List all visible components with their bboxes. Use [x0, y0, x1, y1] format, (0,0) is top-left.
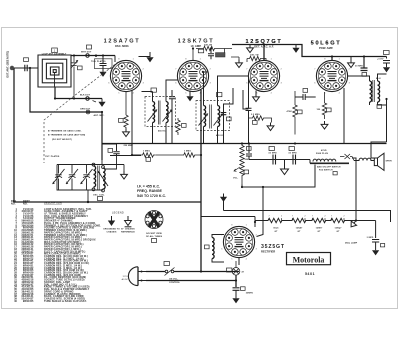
filament string bus	[255, 158, 376, 238]
svg-text:8: 8	[185, 59, 186, 61]
svg-text:500K PLUS: 500K PLUS	[316, 153, 329, 155]
svg-text:8: 8	[256, 59, 257, 61]
svg-text:I.F. = 455 K.C.: I.F. = 455 K.C.	[137, 185, 160, 189]
svg-text:7: 7	[108, 69, 109, 71]
svg-text:EXT. ANT. (SEE NOTE): EXT. ANT. (SEE NOTE)	[7, 51, 10, 78]
B- arrow at line cap	[372, 247, 379, 255]
svg-text:2: 2	[344, 216, 345, 218]
svg-text:BLK DOT: BLK DOT	[80, 95, 91, 97]
chassis ground under 20K	[123, 129, 130, 137]
svg-text:ANT. SEC.: ANT. SEC.	[94, 114, 105, 117]
bottom chassis bus	[14, 68, 201, 202]
svg-text:4: 4	[246, 259, 247, 261]
IF T3 part-number box	[217, 93, 222, 97]
svg-text:.01 MFD: .01 MFD	[268, 153, 277, 155]
chassis arrow right of gang	[123, 165, 125, 172]
long B- vertical to power line	[200, 90, 202, 272]
speaker	[374, 158, 377, 166]
IF T2 part-number box	[151, 88, 156, 92]
svg-text:6: 6	[221, 249, 222, 251]
svg-text:GROUNDED TO: GROUNDED TO	[103, 228, 120, 230]
svg-text:455 KC: 455 KC	[216, 134, 224, 137]
svg-text:OSC. COIL: OSC. COIL	[93, 194, 105, 196]
svg-text:SPKR: SPKR	[386, 161, 393, 163]
svg-text:50L6GT: 50L6GT	[311, 41, 342, 47]
svg-text:✱ TRIMMERS ON GANG COND.: ✱ TRIMMERS ON GANG COND.	[48, 130, 82, 133]
svg-text:1: 1	[339, 59, 340, 61]
svg-text:CUT. PLATES: CUT. PLATES	[45, 155, 60, 158]
B+ filter capacitor 30MFD	[361, 57, 368, 71]
svg-text:30MFD: 30MFD	[246, 293, 254, 295]
B- arrow at top bus	[292, 45, 299, 53]
B- arrow under V2	[189, 91, 191, 94]
svg-text:8: 8	[231, 225, 232, 227]
svg-text:AND ON-OFF SWITCH: AND ON-OFF SWITCH	[317, 165, 341, 168]
svg-text:12SA7: 12SA7	[296, 227, 304, 230]
oscillator grid resistor 20K	[124, 92, 128, 130]
svg-text:DIAL LAMP: DIAL LAMP	[345, 242, 358, 245]
svg-text:2: 2	[256, 235, 257, 237]
AVC resistor 2	[155, 153, 201, 157]
wire antenna to loop	[14, 67, 38, 69]
loop bottom wire	[55, 87, 102, 99]
ground between audio caps	[284, 160, 286, 170]
IF transformer T3 (2nd IF) can	[196, 95, 230, 144]
loop antenna L1 spiral	[38, 55, 71, 87]
twisted pair crossing	[340, 154, 354, 161]
legend chassis arrow	[127, 216, 129, 221]
svg-text:7: 7	[292, 216, 293, 218]
speaker voice coil wiring	[371, 142, 387, 158]
svg-text:2: 2	[143, 69, 144, 71]
svg-text:1: 1	[246, 225, 247, 227]
tube pin numbers	[108, 59, 349, 261]
wire into V1 grid	[114, 56, 116, 63]
grid resistor 470K vertical	[293, 91, 297, 135]
AVC resistor 1 MEG	[141, 153, 155, 157]
svg-text:RECTIFIER: RECTIFIER	[261, 250, 275, 254]
V3 cathode ground	[255, 91, 257, 94]
svg-text:✱ TRIMMERS ON CANS (BOTTOM): ✱ TRIMMERS ON CANS (BOTTOM)	[48, 134, 85, 137]
svg-text:3: 3	[349, 83, 350, 85]
svg-text:B− CHASSIS: B− CHASSIS	[121, 227, 135, 230]
oscillator coil L2	[92, 163, 108, 192]
svg-text:CHASSIS: CHASSIS	[107, 230, 117, 233]
svg-text:AC-DC: AC-DC	[122, 278, 129, 281]
AVC capacitor 250MMF	[102, 144, 141, 156]
svg-text:250 MMF: 250 MMF	[124, 145, 134, 147]
svg-text:455 KC: 455 KC	[158, 130, 166, 133]
svg-text:7: 7	[312, 216, 313, 218]
svg-text:5: 5	[256, 93, 257, 95]
svg-text:5: 5	[118, 93, 119, 95]
cathode resistor 150 vertical with ground	[322, 92, 326, 119]
svg-text:NO.: NO.	[11, 202, 16, 205]
wire GRN DOT line	[30, 68, 102, 160]
svg-text:10K ¾W: 10K ¾W	[250, 54, 259, 57]
socket view symbol	[145, 211, 163, 229]
svg-text:6: 6	[175, 83, 176, 85]
loop assembly box label 1	[52, 48, 58, 53]
svg-text:50L6: 50L6	[273, 228, 279, 230]
ground B- at grid cap	[99, 69, 106, 77]
svg-text:470K: 470K	[287, 110, 293, 113]
resistor between IF cans	[176, 118, 180, 135]
lower line cord wire	[146, 275, 236, 287]
tube V5 35Z5GT rectifier socket	[223, 226, 254, 257]
svg-text:1 MEG: 1 MEG	[143, 151, 150, 153]
electrolytic cap under line	[233, 288, 240, 291]
svg-text:12SQ7: 12SQ7	[335, 228, 343, 230]
svg-text:I.F. AMP.: I.F. AMP.	[191, 44, 202, 48]
svg-text:5: 5	[324, 93, 325, 95]
svg-text:2: 2	[349, 69, 350, 71]
V5 cathode to pilot lamp	[238, 258, 240, 266]
svg-text:LEGEND: LEGEND	[112, 212, 124, 215]
svg-text:12SK7: 12SK7	[316, 228, 324, 230]
svg-text:7: 7	[175, 69, 176, 71]
svg-text:2: 2	[325, 216, 326, 218]
volume control 500K potentiometer	[234, 144, 244, 189]
on-off switch SW1	[165, 268, 175, 276]
svg-text:6: 6	[246, 83, 247, 85]
svg-text:7: 7	[331, 216, 332, 218]
svg-text:NO.: NO.	[23, 202, 28, 205]
audio coupling caps C17 C18	[273, 155, 296, 165]
svg-text:.01 MFD: .01 MFD	[288, 153, 297, 155]
svg-text:12SQ7GT: 12SQ7GT	[245, 39, 282, 45]
V1 lower-right lead down to AVC line	[132, 91, 141, 156]
svg-text:GRN DOT: GRN DOT	[80, 108, 91, 110]
tube labels overdraw	[245, 39, 341, 46]
svg-text:+117V: +117V	[377, 59, 384, 61]
upper line cord wire with switch	[146, 271, 239, 273]
svg-text:4: 4	[133, 93, 134, 95]
wire loop top to grid junction	[71, 56, 115, 58]
trimmer C2 on loop	[71, 56, 79, 99]
svg-text:5: 5	[231, 259, 232, 261]
svg-text:9B60455: 9B60455	[23, 300, 34, 303]
pilot lamp	[232, 261, 240, 275]
svg-text:4: 4	[200, 93, 201, 95]
tube V3 12SQ7GT socket	[248, 60, 279, 91]
svg-text:.1 MFD: .1 MFD	[366, 237, 374, 239]
svg-text:3.3 MEG: 3.3 MEG	[251, 114, 260, 116]
svg-text:LOOP ANT. ASSEMBLY: LOOP ANT. ASSEMBLY	[42, 53, 67, 56]
svg-text:7: 7	[246, 69, 247, 71]
svg-text:30 MFD: 30 MFD	[355, 66, 363, 68]
tube V2 12SK7GT socket	[177, 60, 208, 91]
output transformer T4	[348, 74, 387, 142]
svg-text:CONTROL: CONTROL	[169, 282, 181, 284]
chassis arrow near V4 plate	[350, 57, 352, 60]
svg-text:DESCRIPTION: DESCRIPTION	[44, 202, 62, 205]
power plug	[128, 267, 146, 286]
line bypass cap .1MFD	[372, 240, 379, 243]
V1 plate lead with B- arrow	[139, 52, 151, 57]
svg-text:35Z5GT: 35Z5GT	[261, 244, 285, 250]
svg-text:7: 7	[269, 216, 270, 218]
AVC bus line	[102, 143, 387, 145]
svg-text:OSC. MOD.: OSC. MOD.	[115, 44, 130, 48]
svg-text:2: 2	[305, 216, 306, 218]
voice coil	[354, 158, 374, 160]
svg-text:3: 3	[256, 249, 257, 251]
V2 cathode capacitor	[169, 90, 175, 144]
diode filter cap	[246, 76, 252, 144]
svg-text:(DO NOT ADJUST): (DO NOT ADJUST)	[52, 138, 72, 141]
dashed assembly boundary	[44, 62, 118, 163]
svg-text:FREQ. RANGE: FREQ. RANGE	[137, 189, 163, 193]
cap lead into osc coil	[102, 156, 117, 169]
parts list table	[11, 200, 101, 303]
IF transformer T2 (1st IF) can	[145, 92, 176, 144]
V4 plate return wire	[343, 88, 345, 144]
svg-text:2: 2	[281, 216, 282, 218]
ground B- arrow at V1 plate	[146, 54, 153, 62]
svg-text:5: 5	[185, 93, 186, 95]
coupling cap C16	[246, 144, 310, 160]
line cord resistor element	[310, 159, 349, 163]
svg-text:7: 7	[221, 235, 222, 237]
svg-text:117 V.: 117 V.	[123, 276, 129, 278]
svg-text:TUBE SHIELD & BASE CLIP ASSY.: TUBE SHIELD & BASE CLIP ASSY.	[44, 300, 87, 303]
svg-text:3: 3	[210, 83, 211, 85]
svg-text:8: 8	[324, 59, 325, 61]
svg-text:Motorola: Motorola	[293, 256, 325, 265]
tube V1 12SA7GT socket	[110, 60, 141, 91]
grid coupling capacitor and ground at V1 grid	[100, 56, 107, 69]
svg-text:REFERENCE: REFERENCE	[121, 231, 135, 233]
svg-text:6: 6	[108, 83, 109, 85]
decoupling cap at 22K	[208, 49, 214, 60]
ground B- below loop return	[98, 99, 105, 107]
svg-text:1: 1	[271, 59, 272, 61]
svg-text:1: 1	[200, 59, 201, 61]
svg-text:4: 4	[339, 93, 340, 95]
B+ arrow top right	[386, 57, 388, 59]
svg-text:3: 3	[281, 83, 282, 85]
svg-text:1: 1	[133, 59, 134, 61]
B- arrow under cap	[232, 295, 239, 303]
tuning gang condenser (cut plates)	[53, 165, 125, 203]
antenna terminal	[10, 66, 14, 70]
chassis arrow on filament bus	[348, 218, 358, 228]
svg-text:R12 SWITCH: R12 SWITCH	[319, 170, 333, 172]
svg-text:4: 4	[271, 93, 272, 95]
plate resistor 22K above V2/V3	[193, 46, 232, 60]
svg-text:VOL.: VOL.	[233, 178, 239, 180]
splice WHT DOT	[86, 54, 90, 58]
3.3 MEG resistor and ground	[249, 116, 272, 123]
svg-text:WHT DOT: WHT DOT	[81, 51, 92, 53]
audio line to output grid	[201, 165, 391, 237]
svg-text:OF ALL TUBES: OF ALL TUBES	[146, 235, 163, 238]
svg-text:2: 2	[281, 69, 282, 71]
capacitor C1 on antenna lead	[25, 65, 27, 71]
svg-text:SOCKET VIEW: SOCKET VIEW	[146, 233, 162, 235]
svg-text:BLU: BLU	[376, 78, 381, 80]
splice GRN DOT	[86, 110, 90, 114]
legend B- arrow	[111, 216, 113, 221]
svg-text:540 TO 1720 K.C.: 540 TO 1720 K.C.	[137, 194, 166, 198]
svg-text:1 MEG: 1 MEG	[184, 151, 191, 153]
wires tubes to IF cans	[142, 72, 249, 98]
V4 plate to output transformer	[332, 57, 348, 77]
trimmer box at V1 grid	[95, 59, 113, 69]
V3 diode return wiring	[221, 88, 249, 144]
splice BLK DOT	[86, 97, 90, 101]
top bus over V3	[232, 45, 387, 61]
svg-text:12SA7GT: 12SA7GT	[104, 39, 141, 45]
ballast coil left of V5	[212, 235, 224, 263]
svg-text:470Ω: 470Ω	[321, 149, 327, 152]
svg-text:6: 6	[314, 83, 315, 85]
tube V4 50L6GT socket	[316, 60, 347, 91]
svg-text:7: 7	[314, 69, 315, 71]
svg-text:3: 3	[143, 83, 144, 85]
chassis arrow at 250	[247, 45, 254, 53]
svg-text:22K 2W: 22K 2W	[204, 45, 212, 47]
svg-text:54X1: 54X1	[305, 272, 315, 276]
V4 grid capacitor	[295, 94, 316, 100]
Motorola logo	[287, 253, 331, 265]
diode load resistor 10K	[247, 56, 266, 62]
svg-text:2: 2	[210, 69, 211, 71]
svg-text:TUN. PLATES: TUN. PLATES	[91, 60, 106, 63]
svg-text:8: 8	[118, 59, 119, 61]
